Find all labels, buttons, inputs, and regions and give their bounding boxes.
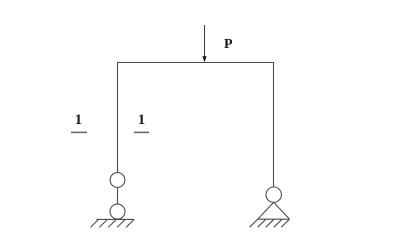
svg-text:1: 1 bbox=[138, 112, 146, 128]
pin support triangle (right) bbox=[258, 202, 289, 219]
svg-text:P: P bbox=[224, 37, 233, 52]
ground hatching (right support) bbox=[250, 219, 290, 227]
ground line (left support) bbox=[96, 218, 134, 220]
section mark line (left) bbox=[71, 131, 87, 133]
wire frame: left column, top beam, right column bbox=[118, 63, 274, 188]
upper hinge circle (left support link) bbox=[110, 173, 125, 188]
lower hinge circle (left support) bbox=[110, 204, 125, 219]
link between hinges bbox=[117, 187, 119, 204]
ground hatching (left support) bbox=[90, 219, 134, 227]
ground line (right support) bbox=[258, 218, 290, 220]
load arrow P bbox=[202, 25, 206, 62]
svg-text:1: 1 bbox=[75, 112, 83, 128]
hinge circle (right support) bbox=[266, 187, 281, 202]
section mark line (right) bbox=[134, 131, 149, 133]
